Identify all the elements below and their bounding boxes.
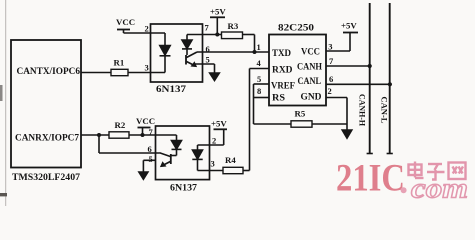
wire R5 to GND line (312, 123, 347, 125)
svg-text:6: 6 (206, 44, 210, 54)
scan artifact line left edge (5, 0, 7, 206)
svg-text:GND: GND (301, 93, 322, 103)
resistor R4 (223, 167, 243, 173)
transistor inside 6N137 (2) (170, 154, 172, 164)
svg-text:VCC: VCC (116, 17, 135, 27)
VCC symbol bottom (138, 127, 151, 129)
wire CANRX to R2 (81, 134, 109, 136)
resistor R3 (217, 34, 221, 36)
svg-text:VCC: VCC (136, 116, 155, 126)
svg-text:R5: R5 (295, 109, 306, 119)
wire opto2 pin3 to R4 (198, 170, 224, 172)
svg-text:R1: R1 (114, 58, 125, 68)
svg-text:RS: RS (272, 94, 285, 104)
svg-text:TMS320LF2407: TMS320LF2407 (12, 173, 80, 183)
svg-text:82C250: 82C250 (278, 24, 314, 34)
+5V symbol bottom middle (214, 128, 228, 130)
wire R4 up to 82C250 RXD pin4 (243, 170, 250, 172)
svg-text:+5V: +5V (210, 7, 226, 17)
CAN bus line H (369, 3, 371, 154)
+5V symbol right (343, 32, 358, 34)
resistor R2 (109, 132, 129, 138)
svg-text:R4: R4 (225, 155, 236, 165)
simplified CJK 电子网 (409, 162, 466, 180)
svg-text:2: 2 (145, 24, 149, 34)
optocoupler U3 6N137 box (156, 126, 210, 180)
photodiode inside 6N137 (2) (176, 135, 178, 141)
svg-text:+5V: +5V (341, 21, 357, 31)
svg-text:8: 8 (257, 86, 261, 96)
ground arrow (82C250 GND) (342, 130, 352, 138)
svg-text:CANTX/IOPC6: CANTX/IOPC6 (17, 67, 81, 77)
wire opto2 pin5 to ground (143, 159, 155, 161)
wire RS pin8 stub (254, 97, 270, 99)
LED D2 inside 6N137 (2) (198, 144, 224, 146)
LED D1 inside 6N137 (164, 33, 166, 46)
svg-text:1: 1 (257, 42, 261, 52)
wire pin7 to +5V (187, 34, 217, 36)
wire pin5 to ground (193, 63, 215, 65)
svg-text:R2: R2 (115, 120, 126, 130)
svg-text:+5V: +5V (211, 119, 227, 129)
svg-text:6: 6 (148, 144, 152, 154)
svg-text:5: 5 (149, 154, 153, 164)
resistor R1 (111, 69, 128, 75)
svg-text:RXD: RXD (272, 66, 293, 76)
wire VCC pin3 to +5V (326, 50, 350, 52)
wire pin6 TXD line to 82C250 pin1 (197, 51, 269, 53)
wire R1 to opto pin3 (128, 72, 165, 74)
svg-text:5: 5 (257, 74, 261, 84)
photodiode inside 6N137 (186, 35, 188, 41)
ground arrow (opto2 pin5) (139, 172, 148, 179)
svg-text:6N137: 6N137 (156, 85, 186, 95)
svg-text:TXD: TXD (272, 49, 291, 59)
svg-text:CAN-L: CAN-L (380, 97, 389, 124)
wire CANH pin7 to bus (326, 65, 370, 67)
svg-text:3: 3 (211, 159, 215, 169)
transistor inside 6N137 (185, 55, 187, 65)
wire CANRX branch down to opto2 pin6 (98, 135, 100, 153)
wire CANTX to R1 (81, 72, 111, 74)
svg-text:21IC: 21IC (336, 157, 405, 200)
svg-text:R3: R3 (228, 21, 239, 31)
DSP U1 TMS320LF2407 box (11, 40, 81, 168)
optocoupler U2 6N137 box (151, 24, 203, 82)
svg-text:3: 3 (328, 42, 332, 52)
svg-text:2: 2 (328, 86, 332, 96)
svg-text:5: 5 (206, 55, 210, 65)
svg-text:3: 3 (145, 63, 149, 73)
svg-text:6N137: 6N137 (170, 183, 197, 193)
wire VREF pin5 stub (254, 83, 270, 85)
wire R2 to VCC junction / opto2 pin7 (129, 134, 177, 136)
wire VREF/RS down to R5 (253, 84, 255, 124)
82C250 U4 box (269, 35, 326, 106)
svg-text:CANL: CANL (298, 77, 322, 87)
svg-text:2: 2 (212, 136, 216, 146)
resistor R5 (291, 121, 312, 127)
CAN bus line L (389, 3, 391, 154)
svg-text:VCC: VCC (301, 48, 320, 58)
svg-text:VREF: VREF (271, 82, 295, 92)
svg-text:CANH-H: CANH-H (357, 94, 366, 127)
svg-text:CANRX/IOPC7: CANRX/IOPC7 (15, 133, 79, 143)
svg-text:6: 6 (329, 74, 333, 84)
wire GND pin2 down (326, 97, 347, 99)
watermark 21IC logo (336, 157, 468, 205)
+5V symbol top middle (210, 16, 225, 18)
VCC symbol top-left (117, 29, 130, 31)
wire VCC to opto pin2 (124, 32, 166, 34)
ground arrow (opto1 pin5) (210, 73, 220, 81)
wire R3 to TXD line (243, 34, 255, 36)
wire CANL pin6 to bus (326, 83, 390, 85)
svg-text:CANH: CANH (297, 63, 323, 73)
